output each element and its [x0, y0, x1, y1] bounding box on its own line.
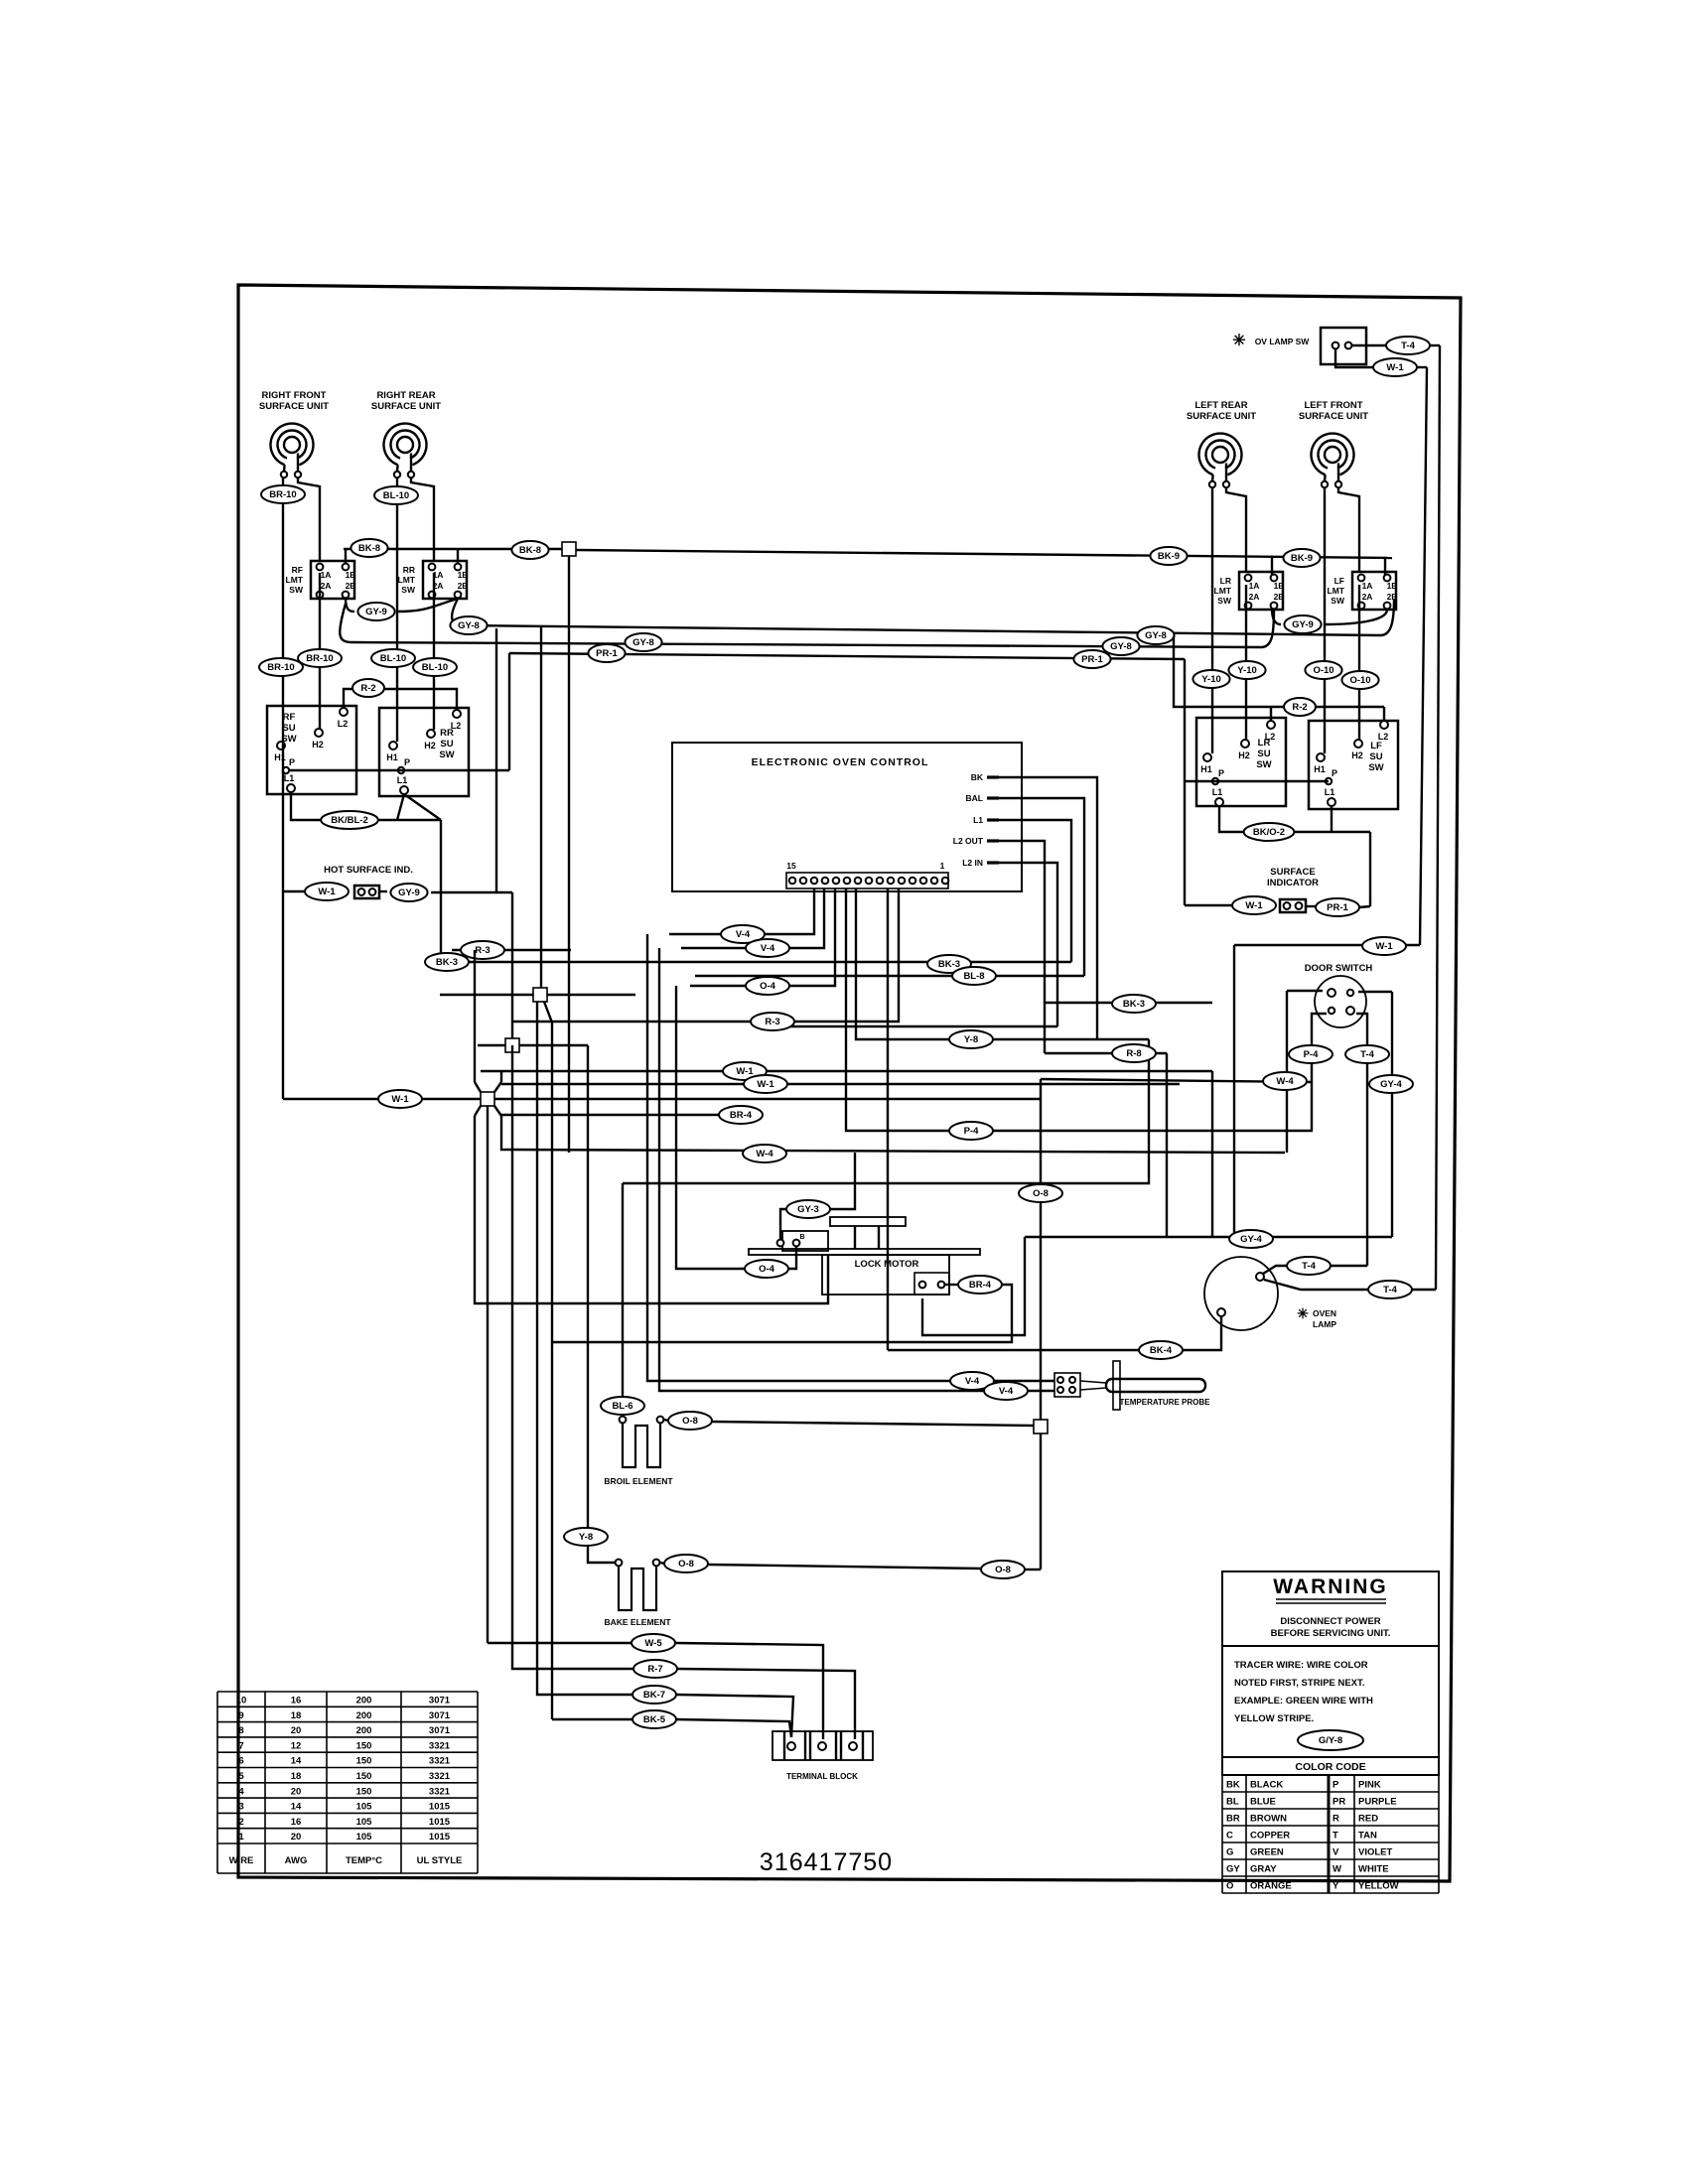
svg-text:BL-6: BL-6 [612, 1401, 632, 1412]
svg-text:SW: SW [1331, 596, 1345, 606]
wire label GY-8 [625, 633, 661, 651]
svg-text:LR: LR [1220, 576, 1231, 586]
wire: BK-5 row [552, 1718, 632, 1720]
svg-text:1A: 1A [321, 570, 332, 580]
svg-text:ORANGE: ORANGE [1250, 1881, 1292, 1892]
svg-text:V-4: V-4 [999, 1386, 1014, 1397]
wire: door TR right to GY-4 drop [1358, 991, 1392, 993]
svg-text:RIGHT REAR: RIGHT REAR [376, 390, 435, 401]
svg-text:3071: 3071 [429, 1710, 451, 1721]
wire: lamp top pin to T-4 upper [1263, 1266, 1287, 1274]
svg-text:1: 1 [940, 861, 945, 871]
wire: LR LMT 2B to GY-9 right [1272, 609, 1281, 624]
wire: BK exit [999, 777, 1097, 1039]
surface unit coil: RIGHT REAR [384, 424, 427, 472]
svg-text:GRAY: GRAY [1250, 1864, 1277, 1875]
wire: T-4 to right vertical [1430, 344, 1440, 346]
svg-text:LEFT REAR: LEFT REAR [1194, 400, 1247, 411]
wire: bake O-8 bus right [708, 1565, 981, 1569]
svg-text:P: P [289, 757, 295, 767]
svg-text:SURFACE: SURFACE [1270, 867, 1315, 878]
svg-text:COLOR CODE: COLOR CODE [1295, 1761, 1365, 1773]
junction square 2 [478, 1044, 588, 1046]
svg-text:BROIL ELEMENT: BROIL ELEMENT [604, 1476, 673, 1486]
wire: BR-4 bus [501, 1114, 741, 1116]
wire label R-3 [751, 1013, 794, 1030]
svg-text:R-3: R-3 [765, 1017, 779, 1027]
wire: O-8 to junction [712, 1422, 1034, 1426]
svg-text:BEFORE SERVICING UNIT.: BEFORE SERVICING UNIT. [1271, 1628, 1391, 1639]
wire: terminal drop BK-4 long [887, 888, 889, 1350]
svg-text:9: 9 [238, 1710, 243, 1721]
svg-text:L2: L2 [338, 719, 349, 729]
wire label Y-8 [949, 1030, 993, 1048]
limit switch RR LMT SW [398, 561, 469, 599]
svg-text:T-4: T-4 [1383, 1285, 1397, 1296]
wire label O-4 [745, 1260, 788, 1278]
wire: riser from BK/O-2 down to surface indicator [1369, 832, 1371, 906]
wire: PR bus left riser down to P row [508, 653, 510, 770]
wire: terminal drop to P-4 bus [846, 888, 1313, 1131]
wire: W-1 bus upper [481, 1070, 1212, 1072]
wire label GY-9 [390, 884, 427, 901]
svg-text:200: 200 [356, 1696, 372, 1706]
svg-text:6: 6 [238, 1756, 243, 1767]
junction square broil [1034, 1420, 1048, 1433]
svg-text:105: 105 [356, 1817, 373, 1828]
svg-text:L1: L1 [397, 775, 408, 785]
wire: Y-8 riser down to broil feed [623, 1039, 1149, 1183]
wire: X down to W-5 [487, 1106, 489, 1643]
svg-text:1015: 1015 [429, 1802, 451, 1813]
wire: vertical into junction 1 [540, 626, 542, 988]
wire: terminal drop to R-3 bus [512, 888, 899, 1022]
svg-text:L1: L1 [1212, 787, 1223, 797]
EOC terminal strip [786, 873, 948, 888]
svg-text:18: 18 [291, 1710, 302, 1721]
svg-text:C: C [1226, 1831, 1233, 1842]
wire: R-8 right bus [1045, 1052, 1167, 1054]
wire: R-7 row [512, 1045, 633, 1669]
svg-text:SW: SW [1256, 759, 1271, 770]
wire label W-1 [723, 1062, 767, 1080]
wire: LR coil left lead down to H1 [1211, 487, 1213, 753]
svg-text:Y: Y [1333, 1881, 1339, 1892]
wire: L2 OUT exit [999, 841, 1045, 1053]
wire: PR bus right riser down to P row [1184, 659, 1186, 781]
example tracer wire label G/Y-8 [1298, 1730, 1363, 1750]
svg-text:BR-10: BR-10 [306, 653, 333, 664]
svg-text:EXAMPLE: GREEN WIRE WITH: EXAMPLE: GREEN WIRE WITH [1234, 1696, 1373, 1706]
svg-text:1B: 1B [1387, 581, 1398, 591]
wire label BL-6 [601, 1397, 644, 1415]
svg-text:INDICATOR: INDICATOR [1267, 878, 1319, 888]
wire: GY-4 bus left drop to motor [922, 1237, 1025, 1335]
svg-text:LF: LF [1334, 576, 1344, 586]
wire label O-10 [1305, 661, 1341, 679]
svg-text:1015: 1015 [429, 1817, 451, 1828]
wire: left P row [289, 769, 509, 771]
wire label PR-1 [588, 644, 625, 662]
svg-text:L1: L1 [284, 773, 295, 783]
wire label T-4 [1287, 1257, 1331, 1275]
junction square 1 [440, 994, 635, 996]
svg-text:BL-8: BL-8 [963, 971, 984, 982]
svg-text:3321: 3321 [429, 1740, 451, 1751]
svg-text:BL: BL [1226, 1797, 1239, 1808]
hot surface indicator lamp [354, 886, 379, 898]
wire label W-1 [744, 1075, 787, 1093]
svg-text:18: 18 [291, 1771, 302, 1782]
color code table [1222, 1757, 1439, 1893]
wire: vertical tie [1211, 1071, 1213, 1237]
svg-text:SURFACE UNIT: SURFACE UNIT [259, 401, 329, 412]
svg-text:3321: 3321 [429, 1786, 451, 1797]
svg-text:RIGHT FRONT: RIGHT FRONT [262, 390, 327, 401]
svg-text:GY-4: GY-4 [1380, 1079, 1402, 1090]
svg-text:GY-8: GY-8 [1110, 641, 1132, 652]
wire: W-5 row [488, 1642, 631, 1644]
wire: right P row [1185, 780, 1329, 782]
wire: BK-3 bus [441, 961, 1071, 963]
wire: to GY-9 [379, 890, 387, 892]
svg-text:RED: RED [1358, 1814, 1378, 1825]
wire label Y-10 [1228, 661, 1265, 679]
wire: door TL left to W-4 drop [1287, 990, 1323, 992]
svg-text:1A: 1A [1249, 581, 1260, 591]
svg-text:SU: SU [1257, 749, 1270, 759]
svg-text:BR-10: BR-10 [269, 489, 296, 500]
wire label BR-4 [719, 1106, 763, 1124]
svg-text:2: 2 [238, 1817, 243, 1828]
wire label R-7 [633, 1660, 677, 1678]
svg-text:PR-1: PR-1 [1081, 654, 1103, 665]
wire: BK-4 left [888, 1349, 1139, 1351]
svg-text:BK/BL-2: BK/BL-2 [331, 815, 367, 826]
svg-text:BR-10: BR-10 [267, 662, 294, 673]
wire: W-1 bus left drop [1233, 945, 1235, 1237]
svg-text:W-1: W-1 [318, 887, 336, 897]
wire label R-2 [352, 679, 384, 697]
svg-text:200: 200 [356, 1710, 372, 1721]
wire label GY-8 [1137, 626, 1174, 644]
wire: lamp pin to T-4 lower [1264, 1280, 1368, 1290]
svg-text:150: 150 [356, 1771, 372, 1782]
wire: broil right pin to O-8 [664, 1420, 668, 1421]
svg-text:105: 105 [356, 1832, 373, 1843]
svg-text:P: P [404, 757, 410, 767]
lock motor body [822, 1255, 949, 1295]
warning box [1222, 1571, 1439, 1646]
svg-text:H1: H1 [386, 752, 398, 762]
X junction diagonals [475, 1082, 481, 1092]
svg-text:8: 8 [238, 1725, 243, 1736]
svg-text:W-5: W-5 [644, 1638, 662, 1649]
svg-text:W-1: W-1 [391, 1094, 409, 1105]
svg-text:GY: GY [1226, 1864, 1240, 1875]
wire: RF LMT 1B up to BK bus [345, 549, 347, 564]
wire label W-4 [743, 1145, 786, 1162]
wire: R-8 riser down [1166, 1053, 1168, 1237]
svg-text:150: 150 [356, 1756, 372, 1767]
svg-text:1015: 1015 [429, 1832, 451, 1843]
wire: T-4 upper to door drop [1331, 1265, 1367, 1267]
wire label W-4 [1263, 1072, 1307, 1090]
surface unit coil: LEFT REAR [1198, 434, 1241, 481]
svg-text:LOCK MOTOR: LOCK MOTOR [855, 1259, 919, 1270]
svg-text:16: 16 [291, 1817, 302, 1828]
svg-text:BR: BR [1226, 1814, 1240, 1825]
svg-text:20: 20 [291, 1725, 302, 1736]
svg-text:GY-3: GY-3 [797, 1204, 819, 1215]
wire label GY-9 [357, 603, 394, 620]
wire: L2 IN exit [999, 863, 1057, 1026]
wire: O-8 vertical drop [1040, 1079, 1042, 1420]
lock motor switch box [782, 1231, 828, 1251]
surface unit switch LF SU SW [1309, 721, 1398, 809]
svg-text:LMT: LMT [286, 575, 304, 585]
svg-text:LMT: LMT [1328, 586, 1345, 596]
wire: terminal drop to Y-8 bus [856, 888, 1149, 1039]
wire label BK-3 [1112, 995, 1156, 1013]
wire: riser from PR bus to surface indicator row [1184, 781, 1186, 905]
svg-text:1B: 1B [458, 570, 469, 580]
svg-text:GY-9: GY-9 [398, 887, 420, 898]
svg-text:NOTED FIRST, STRIPE NEXT.: NOTED FIRST, STRIPE NEXT. [1234, 1678, 1364, 1689]
svg-text:T-4: T-4 [1360, 1049, 1374, 1060]
svg-text:BK-5: BK-5 [643, 1714, 666, 1725]
svg-text:BL-10: BL-10 [383, 490, 409, 501]
svg-text:O-8: O-8 [682, 1416, 698, 1427]
wire: BK-8 bus left segment [344, 548, 562, 550]
wire: RF LMT 2B to GY-9 [346, 598, 354, 612]
wire: W-4 vertical through oval to W-4 bus [1286, 991, 1288, 1153]
wire label W-1 [378, 1090, 422, 1108]
svg-text:PR-1: PR-1 [1327, 902, 1348, 913]
surface unit coil: RIGHT FRONT [271, 424, 314, 472]
svg-text:R-8: R-8 [1126, 1048, 1141, 1059]
lock motor bracket [830, 1217, 906, 1226]
svg-text:200: 200 [356, 1725, 372, 1736]
svg-text:1B: 1B [346, 570, 356, 580]
wire: LR LMT 1B stub [1271, 557, 1273, 575]
wire: BK-9 bus right segment [576, 550, 1392, 558]
svg-text:LR: LR [1258, 738, 1271, 749]
wire label W-1 [1232, 896, 1276, 914]
svg-text:SW: SW [289, 585, 304, 595]
electronic oven control box [672, 743, 1022, 891]
outer border frame [238, 285, 1461, 1881]
svg-text:R-3: R-3 [475, 945, 490, 956]
svg-text:1: 1 [238, 1832, 244, 1843]
wire: R-2 right link [1174, 636, 1384, 707]
svg-text:PR-1: PR-1 [596, 648, 618, 659]
wire label R-2 [1284, 698, 1316, 716]
svg-text:TRACER WIRE: WIRE COLOR: TRACER WIRE: WIRE COLOR [1234, 1660, 1368, 1671]
broil element [620, 1417, 664, 1467]
svg-text:R: R [1333, 1814, 1339, 1825]
wire: GY-3 from switch pin [780, 1209, 786, 1239]
svg-text:PINK: PINK [1358, 1780, 1381, 1791]
svg-text:10: 10 [236, 1696, 247, 1706]
wire: BK-3 riser down from RR L1 [440, 820, 442, 962]
wire label BL-10 [374, 486, 418, 504]
wire label BR-10 [261, 485, 305, 503]
svg-text:P-4: P-4 [964, 1126, 980, 1137]
wire: R-2 left link [344, 689, 457, 710]
wire label P-4 [1289, 1045, 1333, 1063]
svg-text:H2: H2 [424, 741, 436, 751]
svg-text:GY-8: GY-8 [632, 637, 654, 648]
svg-text:RF: RF [292, 565, 303, 575]
wire label BL-8 [952, 967, 996, 985]
wire: W-1 vertical down right side [1420, 367, 1427, 945]
svg-text:Y-8: Y-8 [964, 1034, 978, 1045]
svg-text:O-8: O-8 [995, 1565, 1011, 1575]
svg-text:Y-10: Y-10 [1201, 674, 1221, 685]
svg-text:W-4: W-4 [1276, 1076, 1294, 1087]
wire: R-3 stub near RR [452, 949, 571, 951]
surface unit coil: LEFT FRONT [1312, 434, 1354, 481]
svg-text:GREEN: GREEN [1250, 1847, 1284, 1858]
svg-text:BR-4: BR-4 [969, 1280, 992, 1291]
svg-text:O-4: O-4 [759, 1264, 775, 1275]
wire label O-10 [1341, 671, 1378, 689]
terminal block [772, 1731, 873, 1760]
wire: riser to junction 2 [511, 892, 513, 1045]
wire label V-4 [984, 1382, 1028, 1400]
wire: L1 exit [999, 820, 1071, 962]
wire label BK-3 [927, 955, 971, 973]
svg-text:SURFACE UNIT: SURFACE UNIT [1299, 411, 1368, 422]
svg-text:BK-4: BK-4 [1150, 1345, 1173, 1356]
svg-text:O-8: O-8 [678, 1559, 694, 1570]
wire: W-1 right bus [1234, 944, 1420, 946]
wire: riser down to junction 2 [495, 628, 497, 892]
svg-text:W-1: W-1 [1375, 941, 1393, 952]
wire label BK/O-2 [1244, 823, 1295, 841]
svg-text:T: T [1333, 1831, 1338, 1842]
oven lamp switch box [1321, 328, 1366, 364]
svg-text:O: O [1226, 1881, 1233, 1892]
wire: slant from junction 1 down [544, 1002, 552, 1719]
svg-text:COPPER: COPPER [1250, 1831, 1290, 1842]
svg-text:BAKE ELEMENT: BAKE ELEMENT [604, 1617, 671, 1627]
wire label BR-10 [298, 649, 342, 667]
wire label O-8 [668, 1412, 712, 1430]
svg-text:BK-9: BK-9 [1158, 551, 1180, 562]
svg-text:O-10: O-10 [1349, 675, 1370, 686]
svg-text:H2: H2 [312, 740, 324, 750]
wire label GY-8 [1102, 637, 1139, 655]
svg-text:4: 4 [238, 1786, 244, 1797]
wire: NE riser from X [500, 1071, 502, 1082]
svg-text:15: 15 [786, 861, 796, 871]
wire: RR coil left lead down to H1 [396, 478, 398, 742]
wire: SW drop from X to lock motor feed [475, 1116, 828, 1303]
wire: terminal drop to O-4 bus [690, 888, 835, 986]
svg-text:BK-3: BK-3 [436, 957, 458, 968]
svg-text:14: 14 [291, 1756, 302, 1767]
svg-text:3071: 3071 [429, 1696, 451, 1706]
wire label BK-4 [1139, 1341, 1183, 1359]
wire: RR L1 V-split [397, 794, 404, 820]
svg-text:2B: 2B [1274, 592, 1285, 602]
svg-text:W-1: W-1 [736, 1066, 754, 1077]
svg-text:LAMP: LAMP [1313, 1319, 1336, 1329]
wire label BL-10 [371, 649, 415, 667]
wire label BR-10 [259, 658, 303, 676]
wire label R-3 [461, 941, 504, 959]
svg-text:GY-9: GY-9 [365, 607, 387, 617]
svg-text:YELLOW STRIPE.: YELLOW STRIPE. [1234, 1713, 1314, 1724]
svg-text:P: P [1332, 768, 1337, 778]
svg-text:V-4: V-4 [965, 1376, 980, 1387]
svg-text:SU: SU [1369, 751, 1382, 762]
wire label T-4 [1386, 337, 1430, 354]
svg-text:L1: L1 [1325, 787, 1335, 797]
svg-text:PURPLE: PURPLE [1358, 1797, 1397, 1808]
svg-text:RR: RR [403, 565, 415, 575]
svg-text:LMT: LMT [398, 575, 416, 585]
svg-text:SURFACE UNIT: SURFACE UNIT [371, 401, 441, 412]
svg-text:DISCONNECT POWER: DISCONNECT POWER [1280, 1616, 1380, 1627]
svg-text:150: 150 [356, 1786, 372, 1797]
svg-text:✳: ✳ [1297, 1305, 1309, 1321]
wire label GY-4 [1229, 1230, 1273, 1248]
wire label BK-8 [351, 539, 387, 557]
svg-text:W: W [1333, 1864, 1341, 1875]
svg-text:DOOR SWITCH: DOOR SWITCH [1305, 963, 1373, 974]
svg-text:BLACK: BLACK [1250, 1780, 1283, 1791]
svg-text:3071: 3071 [429, 1725, 451, 1736]
svg-text:BAL: BAL [966, 793, 983, 803]
wire: GY-9 to RR LMT 2B (sag) [398, 599, 458, 612]
door switch body [1315, 976, 1366, 1027]
svg-text:H2: H2 [1238, 751, 1250, 760]
wire: junction down to bake O-8 row [1040, 1433, 1042, 1570]
wire: GY-4 vertical through oval to GY-4 bus [1391, 992, 1393, 1237]
svg-text:BL-10: BL-10 [380, 653, 406, 664]
wire: LF L1 stub down [1331, 806, 1333, 832]
svg-text:G/Y-8: G/Y-8 [1319, 1735, 1342, 1746]
svg-text:YELLOW: YELLOW [1358, 1881, 1399, 1892]
svg-text:2A: 2A [1362, 592, 1373, 602]
wire: motor to BR-4 [945, 1284, 958, 1286]
surface unit switch RR SU SW [379, 708, 469, 796]
wire label BK/BL-2 [321, 811, 378, 829]
svg-text:BK/O-2: BK/O-2 [1253, 827, 1285, 838]
wire: L2 IN bus left [765, 1025, 1057, 1027]
wire: long bus to door region [1041, 1079, 1312, 1082]
wire: LF coil right lead jog to LF LMT 1A, H2 [1338, 487, 1359, 572]
bake element [616, 1560, 660, 1610]
wire: LR L1 down to BK/O-2 row [1219, 806, 1370, 832]
wire gauge table [217, 1692, 478, 1873]
wire label W-1 [1373, 358, 1417, 376]
wire: GY-9 right to LF 2B [1325, 610, 1387, 624]
wire: LR coil right lead jog to LR LMT 1A, H2 [1226, 487, 1246, 572]
wire label W-1 [305, 883, 349, 900]
svg-text:316417750: 316417750 [760, 1848, 893, 1876]
limit switch LF LMT SW [1328, 572, 1398, 610]
svg-text:WARNING: WARNING [1273, 1575, 1388, 1598]
svg-text:H2: H2 [1351, 751, 1363, 760]
svg-text:RR: RR [440, 728, 454, 739]
svg-text:BROWN: BROWN [1250, 1814, 1287, 1825]
wire label GY-4 [1369, 1075, 1413, 1093]
svg-text:L2 OUT: L2 OUT [953, 836, 984, 846]
